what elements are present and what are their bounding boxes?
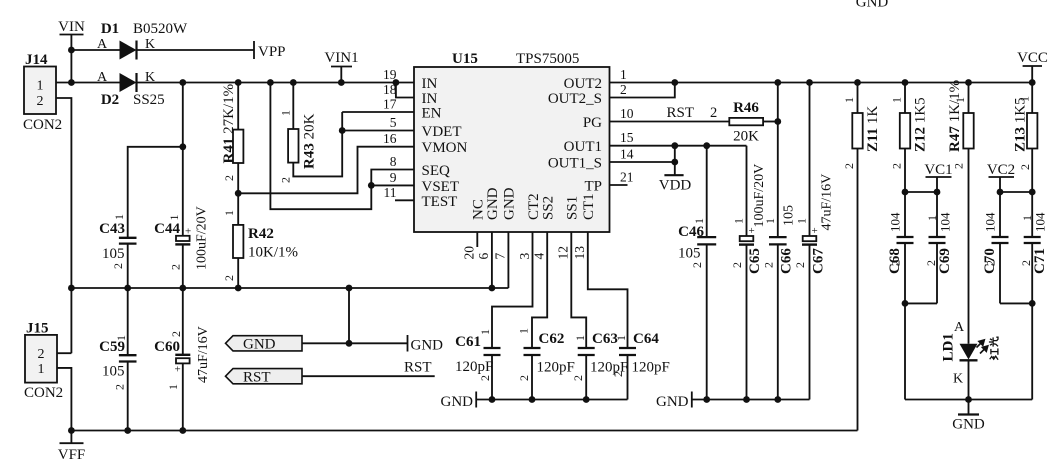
wire C63 bottom lead [585, 355, 587, 400]
wire J14 pin2 down [56, 98, 71, 353]
svg-text:2: 2 [730, 262, 744, 268]
svg-text:1: 1 [112, 214, 126, 220]
svg-text:LD1: LD1 [941, 333, 957, 361]
svg-text:C66: C66 [779, 248, 795, 274]
svg-text:2: 2 [762, 262, 776, 268]
wire J15 pin2 wire [57, 352, 71, 354]
wire LD1 cathode lead [968, 360, 970, 399]
junction rail at VIN1 [338, 79, 345, 86]
svg-text:16: 16 [383, 131, 397, 146]
svg-text:1: 1 [732, 218, 746, 224]
svg-text:A: A [97, 70, 108, 85]
wire C60 top lead [182, 288, 184, 355]
svg-text:1: 1 [795, 218, 809, 224]
svg-text:C62: C62 [539, 331, 565, 347]
svg-text:VIN1: VIN1 [324, 50, 358, 66]
svg-text:2: 2 [111, 263, 125, 269]
wire GND rail C61-C64 [476, 399, 627, 401]
wire C66 riser [777, 83, 779, 238]
wire CT1 pin13 to C64 [588, 232, 628, 348]
wire SEQ/VSET riser [270, 83, 414, 210]
diode D1 [120, 41, 137, 60]
wire C43 bottom lead [127, 244, 129, 288]
svg-text:CT1: CT1 [581, 193, 597, 220]
resistor R46 [729, 118, 763, 125]
svg-text:C71: C71 [1032, 248, 1048, 274]
svg-text:1: 1 [614, 335, 628, 341]
resistor Z13 [1027, 113, 1037, 149]
junction OUT1 at C46 [703, 142, 710, 149]
svg-text:CT2: CT2 [526, 193, 542, 220]
wire C61 riser [491, 347, 493, 349]
junction bus at R42 [235, 285, 242, 292]
svg-text:CON2: CON2 [23, 117, 62, 133]
svg-text:2: 2 [169, 264, 183, 270]
resistor Z11 [852, 113, 862, 149]
svg-text:IN: IN [422, 76, 438, 92]
svg-text:104: 104 [1033, 212, 1048, 232]
svg-text:120pF: 120pF [537, 360, 575, 376]
svg-text:1: 1 [222, 210, 236, 216]
wire C71 top lead [1031, 192, 1033, 237]
capacitor C70 [992, 236, 1009, 238]
svg-text:15: 15 [620, 130, 634, 145]
wire D1 cathode to VPP [137, 49, 255, 51]
wire C70 top lead [999, 192, 1001, 237]
svg-text:NC: NC [471, 199, 487, 220]
svg-text:C61: C61 [455, 334, 481, 350]
capacitor C62 [524, 347, 541, 349]
power flag GND [226, 336, 303, 351]
junction rail at C62 [529, 396, 536, 403]
svg-text:20K: 20K [733, 129, 759, 145]
svg-text:PG: PG [583, 115, 602, 131]
svg-text:1: 1 [166, 384, 180, 390]
svg-text:1: 1 [573, 335, 587, 341]
svg-text:B0520W: B0520W [133, 21, 188, 37]
wire Z11 bottom lead to VFF bus [857, 149, 859, 431]
svg-text:1: 1 [953, 97, 967, 103]
wire C46 riser [706, 146, 708, 237]
svg-text:2: 2 [113, 384, 127, 390]
junction VFF bus at C59 [124, 427, 131, 434]
junction rail at R46/C66 [774, 79, 781, 86]
svg-text:C64: C64 [633, 331, 659, 347]
wire C46 bottom lead [706, 244, 708, 399]
svg-text:C65: C65 [747, 248, 763, 274]
svg-text:TPS75005: TPS75005 [516, 51, 579, 67]
wire Z12 top lead [904, 83, 906, 114]
svg-text:OUT1_S: OUT1_S [548, 156, 602, 172]
wire C67 riser [809, 83, 811, 237]
svg-text:R41 27K/1%: R41 27K/1% [221, 84, 237, 164]
wire VC1 rail [905, 191, 937, 193]
svg-text:GND: GND [856, 0, 889, 11]
svg-text:R42: R42 [248, 226, 274, 242]
svg-text:VDD: VDD [659, 178, 692, 194]
svg-text:2: 2 [571, 375, 585, 381]
wire C43 top link [128, 147, 183, 238]
LD1 value red-light glyphs [989, 337, 998, 360]
svg-text:11: 11 [384, 185, 397, 200]
wire J15 pin1 wire [57, 368, 71, 431]
wire C68 bottom lead [904, 243, 906, 303]
capacitor C69 [929, 236, 946, 238]
junction OUT1 at VDD column [671, 142, 678, 149]
svg-text:2: 2 [842, 163, 856, 169]
svg-text:100uF/20V: 100uF/20V [195, 206, 210, 270]
wire C61 bottom lead [491, 355, 493, 400]
svg-text:4: 4 [532, 253, 547, 260]
capacitor C60 [175, 354, 190, 356]
svg-text:19: 19 [383, 67, 397, 82]
svg-text:104: 104 [938, 212, 953, 232]
resistor Z12 [900, 113, 910, 149]
junction LED rail at LD1 [965, 396, 972, 403]
wire GND bus [71, 287, 508, 289]
capacitor C66 [769, 236, 787, 238]
svg-text:2: 2 [1019, 260, 1033, 266]
svg-text:VC2: VC2 [987, 162, 1015, 178]
svg-text:20: 20 [462, 246, 477, 260]
svg-text:C69: C69 [937, 248, 953, 274]
svg-text:104: 104 [888, 212, 903, 232]
svg-text:Z11 1K: Z11 1K [865, 106, 881, 152]
junction rail at OUT2_S [671, 79, 678, 86]
svg-text:2: 2 [952, 163, 966, 169]
junction R46 right junction [774, 118, 781, 125]
capacitor C43 [119, 237, 137, 239]
junction C44 riser / C43 link [179, 143, 186, 150]
wire C65 riser [746, 146, 748, 236]
wire R43 bottom to EN/VDET [293, 112, 342, 176]
resistor R41 [233, 130, 243, 163]
junction rail at C61 [489, 396, 496, 403]
wire Z11 top lead [857, 83, 859, 114]
svg-text:2: 2 [793, 262, 807, 268]
junction bus at GND tap [346, 285, 353, 292]
svg-text:1: 1 [1018, 96, 1032, 102]
svg-text:Z13 1K5: Z13 1K5 [1013, 97, 1029, 152]
LD1 light arrows [977, 340, 988, 354]
svg-text:2: 2 [478, 375, 492, 381]
junction rail at C63 [583, 396, 590, 403]
wire right group drop [1031, 303, 1033, 399]
svg-text:J15: J15 [26, 321, 49, 337]
svg-text:2: 2 [984, 260, 998, 266]
svg-text:D1: D1 [101, 21, 119, 37]
junction rail at Z11 [854, 79, 861, 86]
svg-text:RST: RST [404, 360, 432, 376]
wire pin18 jog [396, 83, 414, 98]
svg-text:105: 105 [678, 246, 701, 262]
svg-text:2: 2 [710, 105, 717, 121]
wire R46 to VCC riser [763, 121, 778, 123]
net label GND tick left [475, 392, 477, 408]
svg-text:VPP: VPP [258, 44, 286, 60]
svg-text:C67: C67 [811, 248, 827, 274]
wire C62 bottom lead [531, 355, 533, 400]
wire R47 bottom lead to LED [968, 149, 970, 344]
svg-text:2: 2 [37, 94, 44, 109]
wire R41 bottom lead [237, 163, 239, 225]
svg-text:21: 21 [620, 170, 634, 185]
wire VMON wire [238, 147, 414, 194]
capacitor C65 [740, 236, 754, 241]
svg-text:1: 1 [478, 329, 492, 335]
svg-text:2: 2 [222, 275, 236, 281]
svg-text:8: 8 [390, 154, 397, 169]
junction rail at R41 [235, 79, 242, 86]
junction bottom rail at Z13 column [1029, 300, 1036, 307]
svg-text:U15: U15 [452, 51, 478, 67]
wire C67 bottom lead [809, 245, 811, 400]
wire C69 top lead [936, 192, 938, 237]
wire C65 bottom lead [746, 245, 748, 400]
svg-text:VC1: VC1 [924, 162, 952, 178]
wire C70 bottom lead [999, 243, 1001, 303]
wire C70/C71 bottom rail [1000, 302, 1032, 304]
junction bus at J14/J15 column [68, 285, 75, 292]
connector J15 [25, 335, 57, 383]
connector J14 [24, 67, 56, 115]
wire R47 top lead [968, 83, 970, 114]
wire left group drop [904, 303, 906, 399]
svg-text:R46: R46 [733, 100, 759, 116]
wire LED GND rail [905, 399, 1032, 401]
wire EN wire [342, 111, 414, 113]
wire C68 top lead [904, 192, 906, 237]
svg-text:14: 14 [620, 147, 634, 162]
junction VIN / J14 pin1 [68, 79, 75, 86]
svg-text:+: + [812, 225, 818, 237]
junction rail at Z12 [902, 79, 909, 86]
wire Z13 top lead [1031, 83, 1033, 114]
svg-text:VMON: VMON [422, 140, 468, 156]
resistor R43 [288, 129, 298, 163]
wire main rail D2 to U15 [137, 82, 415, 84]
junction bus at GND pins [489, 285, 496, 292]
net terminal VPP [253, 41, 255, 59]
svg-text:2: 2 [890, 163, 904, 169]
svg-text:GND: GND [243, 337, 276, 353]
svg-text:+: + [185, 226, 191, 238]
svg-text:18: 18 [383, 82, 397, 97]
junction rail at C65 bottom [743, 396, 750, 403]
wire C64 bottom lead [627, 355, 629, 400]
junction OUT1_S junction [671, 159, 678, 166]
wire RST flag wire [302, 375, 435, 377]
svg-text:6: 6 [476, 253, 491, 260]
junction rail at R43 [290, 79, 297, 86]
svg-text:VIN: VIN [58, 19, 85, 35]
resistor R47 [963, 113, 973, 149]
wire SS2 pin4 to C62 [532, 232, 547, 348]
junction node EN/VDET [339, 127, 346, 134]
svg-text:3: 3 [517, 253, 532, 260]
junction VFF bus at C60 [179, 427, 186, 434]
wire GND pin7 to bus [507, 232, 509, 288]
wire VFF bus [71, 430, 857, 432]
wire C44 riser [182, 83, 184, 238]
IC U15 TPS75005 body [414, 67, 610, 232]
svg-text:1: 1 [38, 362, 45, 377]
wire TEST stub [395, 199, 414, 201]
capacitor C61 [484, 347, 501, 349]
junction rail at R47 [965, 79, 972, 86]
junction VIN / D1 anode [68, 47, 75, 54]
svg-text:C46: C46 [678, 224, 704, 240]
svg-text:17: 17 [383, 97, 397, 112]
wire J14 pin1 to rail [56, 82, 120, 84]
junction rail at C46 bottom [703, 396, 710, 403]
svg-text:120pF: 120pF [632, 360, 670, 376]
svg-text:2: 2 [279, 177, 293, 183]
svg-text:2: 2 [690, 262, 704, 268]
svg-text:1: 1 [517, 328, 531, 334]
wire R42 bottom lead [237, 258, 239, 288]
svg-text:1: 1 [37, 79, 44, 94]
svg-text:TEST: TEST [422, 194, 458, 210]
junction VC2 rail at Z13/C71 [1029, 189, 1036, 196]
svg-text:2: 2 [38, 347, 45, 362]
svg-text:1: 1 [114, 335, 128, 341]
capacitor C44 [176, 236, 190, 241]
svg-text:1: 1 [763, 218, 777, 224]
junction GND flag junction [346, 340, 353, 347]
svg-text:SS2: SS2 [541, 196, 557, 220]
junction rail at SEQ riser [267, 79, 274, 86]
wire GND pin6 to bus [491, 232, 493, 288]
wire CT2 pin3 to C61 [492, 232, 533, 348]
wire D1 anode [71, 49, 119, 51]
capacitor C46 [697, 236, 716, 238]
svg-text:D2: D2 [101, 92, 119, 108]
wire GND flag wire [302, 342, 408, 344]
svg-text:5: 5 [390, 115, 397, 130]
svg-text:105: 105 [102, 364, 125, 380]
svg-text:12: 12 [556, 246, 571, 260]
wire R43 top lead [292, 83, 294, 130]
svg-text:105: 105 [102, 246, 125, 262]
svg-text:SS25: SS25 [133, 92, 165, 108]
power flag RST [226, 369, 303, 384]
svg-text:CON2: CON2 [24, 385, 63, 401]
junction rail at C67 [806, 79, 813, 86]
svg-text:C43: C43 [99, 221, 125, 237]
junction VC2 rail at C70 [997, 189, 1004, 196]
capacitor C59 [119, 354, 137, 356]
junction bus at C44/C60 [179, 285, 186, 292]
capacitor C71 [1024, 236, 1041, 238]
svg-text:2: 2 [611, 371, 625, 377]
svg-text:+: + [175, 364, 181, 376]
junction bottom rail at C68 [902, 300, 909, 307]
wire OUT1_S wire [610, 161, 675, 163]
net label GND tick [407, 335, 409, 352]
svg-text:SS1: SS1 [565, 196, 581, 220]
wire GND rail C46-C67 [692, 399, 810, 401]
junction node R41/R42/VMON [235, 190, 242, 197]
svg-text:SEQ: SEQ [422, 163, 451, 179]
svg-text:EN: EN [422, 106, 442, 122]
wire C68/C69 bottom rail [905, 302, 937, 304]
capacitor C67 [803, 236, 817, 241]
svg-text:9: 9 [390, 170, 397, 185]
svg-text:OUT2_S: OUT2_S [548, 91, 602, 107]
wire VDET wire [342, 130, 414, 132]
junction VC1 rail at C69 [934, 189, 941, 196]
junction rail at pin18 jog [393, 79, 400, 86]
wire TP stub pin21 [610, 184, 628, 186]
svg-text:VSET: VSET [422, 179, 460, 195]
junction rail at C44 branch [179, 79, 186, 86]
svg-text:1: 1 [279, 110, 293, 116]
svg-text:2: 2 [924, 260, 938, 266]
svg-text:A: A [954, 320, 965, 335]
junction rail at C66 bottom [774, 396, 781, 403]
wire R41 top lead [237, 83, 239, 130]
svg-text:2: 2 [222, 175, 236, 181]
svg-text:J14: J14 [25, 52, 48, 68]
wire C60 bottom lead [182, 363, 184, 430]
wire OUT1 wire [610, 145, 747, 147]
svg-text:GND: GND [502, 187, 518, 220]
svg-text:GND: GND [441, 394, 474, 410]
diode D2 [120, 73, 137, 92]
wire Z12 bottom lead [904, 149, 906, 193]
svg-text:2: 2 [169, 331, 183, 337]
junction bus at C43/C59 [124, 285, 131, 292]
power terminal VDD [674, 146, 676, 176]
svg-text:2: 2 [517, 375, 531, 381]
wire Z13 bottom lead [1031, 149, 1033, 193]
junction VC1 rail at Z12/C68 [902, 189, 909, 196]
wire C59 bottom lead [127, 362, 129, 431]
wire OUT2_S jog [610, 83, 675, 98]
svg-text:10: 10 [620, 106, 634, 121]
svg-text:C60: C60 [154, 339, 180, 355]
wire SS1 pin12 to C63 [571, 232, 586, 348]
svg-text:K: K [953, 372, 963, 387]
capacitor C68 [897, 236, 914, 238]
junction rail at Z13/VCC [1029, 79, 1036, 86]
LED LD1 [960, 344, 978, 360]
svg-text:7: 7 [493, 253, 508, 260]
wire VSET wire [371, 184, 414, 186]
svg-text:1: 1 [692, 218, 706, 224]
svg-text:GND: GND [952, 417, 985, 433]
wire C69 bottom lead [936, 243, 938, 303]
svg-text:2: 2 [889, 260, 903, 266]
wire PG wire [610, 121, 730, 123]
svg-text:VCC: VCC [1017, 50, 1048, 66]
wire OUT2 rail to VCC [610, 82, 1033, 84]
svg-text:47uF/16V: 47uF/16V [820, 174, 835, 231]
svg-text:2: 2 [620, 82, 627, 97]
svg-text:100uF/20V: 100uF/20V [752, 164, 767, 228]
svg-text:OUT2: OUT2 [564, 76, 602, 92]
svg-text:R47 1K/1%: R47 1K/1% [947, 80, 963, 152]
net terminal VFF [70, 431, 72, 444]
svg-text:GND: GND [411, 338, 444, 354]
svg-text:10K/1%: 10K/1% [248, 245, 298, 261]
wire C59 top lead [127, 288, 129, 355]
capacitor C63 [578, 347, 595, 349]
svg-text:RST: RST [243, 370, 271, 386]
wire C71 bottom lead [1031, 243, 1033, 303]
svg-text:1: 1 [620, 67, 627, 82]
